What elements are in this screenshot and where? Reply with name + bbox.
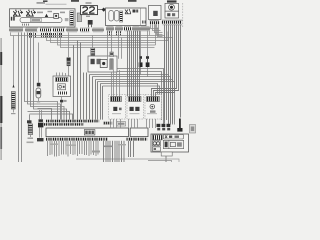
pin row under U4 [150, 20, 160, 24]
strip bottom pin row right [127, 138, 148, 141]
left wire bundle [19, 33, 67, 163]
sensor S0 wire [38, 43, 40, 83]
box U4 small module [149, 6, 162, 20]
pin row under U1 group 3 [40, 28, 52, 33]
connector cluster bottom right [157, 124, 171, 131]
injector T3 [177, 119, 182, 132]
right vertical bundle from U5 [165, 25, 181, 124]
D3 corner feed wires from loom [152, 25, 179, 97]
tick marks inside U1 lower area [23, 24, 29, 26]
component inside U4 [153, 11, 158, 16]
inline connector pair under U3 group 4 [134, 31, 138, 35]
capsule a inside U3 [109, 11, 114, 22]
inline connector pair under U3 group 2 [117, 31, 121, 35]
pin row under U3 group 3 [124, 26, 131, 31]
injector T1 [139, 31, 143, 75]
label 54 [11, 17, 15, 21]
M1 feed stubs [57, 73, 66, 77]
top edge mark B [128, 0, 137, 2]
junction strip right part [130, 128, 148, 137]
capsule strip inside U1 [20, 18, 62, 23]
inline connector pair under U1 group 3 [42, 33, 62, 38]
U4 pin stub wires into loom [151, 24, 163, 37]
arrowhead on fuse wire [12, 85, 14, 88]
inline connector pair under U1 group 2 [28, 33, 36, 38]
mid-left vertical bundle to strip [90, 75, 103, 120]
pin row under U1 group 4 [67, 28, 78, 33]
wire to fuse ladder [13, 36, 15, 88]
switch symbol S1b [26, 10, 36, 16]
dashed box D1 [109, 95, 126, 120]
connector under gauge box [88, 20, 93, 27]
dashed boundary right of U5 [182, 3, 184, 27]
diamond node [102, 8, 106, 12]
wires from U3 pins to M2 [93, 31, 122, 60]
hatched connector above M2 left [91, 48, 95, 55]
top edge mark C [167, 0, 177, 2]
wires descending from strip left half [48, 141, 99, 157]
caption smudge top [37, 2, 67, 5]
small squares inside U3 [133, 10, 139, 13]
pin row B+ group 5 [80, 28, 90, 33]
divider inside U3 [140, 8, 142, 26]
strip top pin row A [46, 120, 100, 123]
pin row under U3 group 4 [133, 26, 140, 31]
box U3 engine fusebox [106, 8, 147, 26]
relay box under U5 [165, 11, 179, 18]
sensor S3 [67, 58, 71, 77]
M1 output wire [60, 97, 67, 120]
pin row under U5 [162, 20, 183, 26]
hatch inside U3 right [143, 21, 146, 24]
scan edge strip left [0, 38, 2, 160]
strip top labels right [103, 122, 126, 126]
ECU ground wire [165, 156, 167, 162]
injector T2 [146, 31, 150, 77]
ladder inside U3 [120, 11, 123, 22]
legend stamp right edge [190, 125, 196, 134]
ladder connector inside U1 [70, 11, 74, 26]
wires descending from strip right half [104, 141, 134, 162]
routing channel wires below boxes [11, 33, 173, 121]
strip bottom pin row [46, 138, 108, 141]
mid horizontal bus wires [90, 69, 175, 125]
pin row under U1 group 2 [26, 28, 39, 33]
gauge box 22 [81, 6, 98, 15]
D1 feed wires [112, 70, 120, 97]
small text under gauge box [86, 16, 90, 17]
inline connector pair under U3 group 1 [108, 31, 112, 35]
capsule b inside U3 [114, 11, 119, 22]
top edge mark A0 [43, 0, 48, 2]
bottom frame line [76, 159, 179, 162]
connector link box between U1 and gauge box [77, 13, 81, 22]
sensor S3 wire from channel [68, 33, 70, 58]
labels under strip wires [50, 144, 126, 153]
module M1 [53, 76, 71, 97]
relay K1 bottom left [27, 120, 34, 143]
fuse ladder F1 [11, 92, 16, 115]
sensor unit U5 top right [165, 3, 179, 11]
pin row B+ group 6 [93, 28, 104, 33]
channel drop wires mid [74, 41, 87, 120]
strip top pin row B [44, 123, 84, 126]
pin row under U1 group 1 [10, 28, 24, 33]
top edge mark A [71, 0, 79, 2]
pin row under U3 group 1 [107, 26, 114, 31]
wire gauge box to diamond [98, 9, 103, 11]
channel right corner stubs [150, 24, 169, 45]
ECU bottom tab [161, 152, 172, 156]
small component box inside U1 [54, 13, 59, 18]
smudge labels inside U1 [37, 11, 68, 21]
indicator triangle [45, 14, 48, 17]
sensor S0 [36, 83, 41, 103]
main junction strip [46, 128, 129, 137]
D2 feed bundle from U3 [128, 31, 140, 97]
ECU box [151, 134, 189, 152]
dashed box D2 [127, 95, 144, 120]
box U1 instrument cluster [10, 9, 76, 27]
dashed box D3 [145, 95, 162, 120]
stubs from dashed boxes to strip [111, 119, 156, 128]
nested corner wires to strip [28, 109, 73, 121]
pin row under U3 group 2 [116, 26, 123, 31]
switch symbol S1a [13, 10, 23, 16]
module M2 [88, 56, 117, 72]
label box inside capsule [31, 18, 42, 22]
switch symbol inside U3 [125, 9, 131, 14]
caption above gauge box [86, 2, 92, 4]
pin row under U3 group 5 [141, 26, 150, 31]
hatched connector above M2 right [110, 52, 113, 57]
pin row under U1 group 3b [53, 28, 65, 33]
bottom right frame line [148, 161, 172, 163]
connector C2 [37, 110, 44, 141]
